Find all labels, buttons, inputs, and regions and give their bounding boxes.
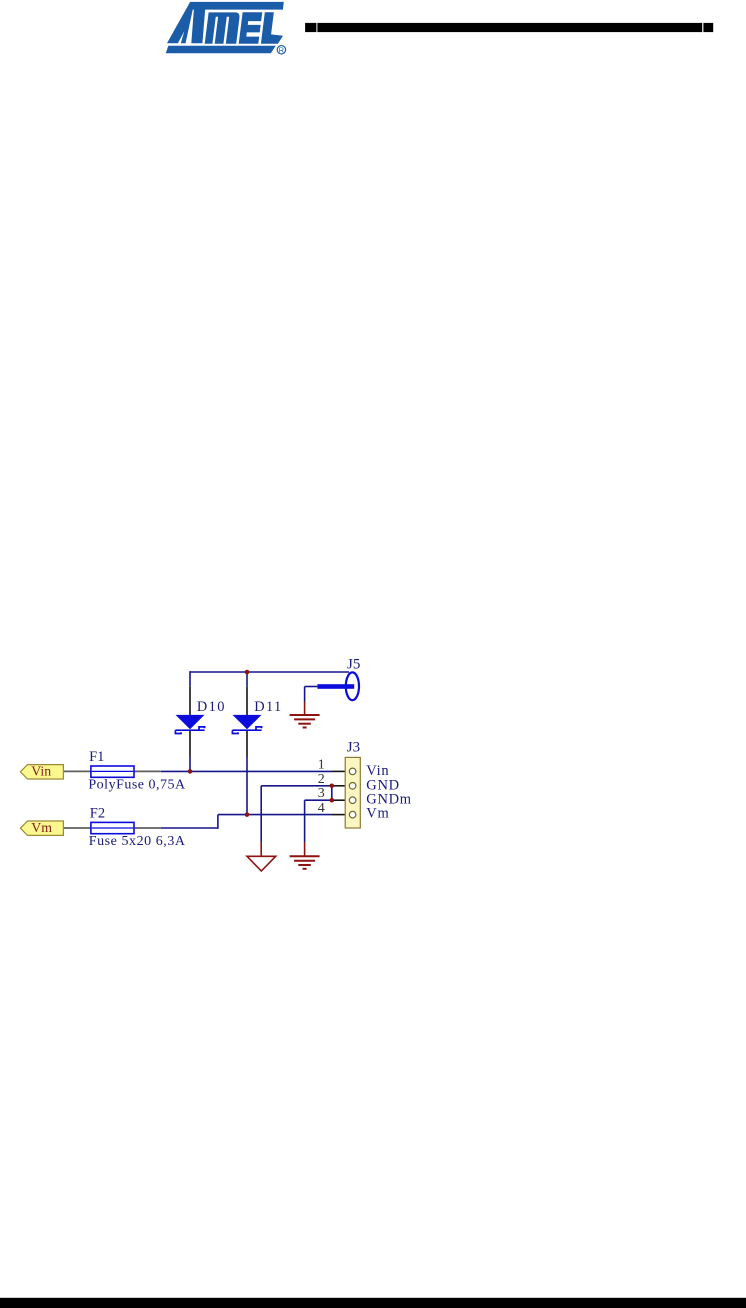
svg-text:Vm: Vm [366,805,389,821]
svg-text:Vm: Vm [31,820,52,835]
svg-text:D11: D11 [254,699,282,715]
svg-text:F2: F2 [90,806,105,822]
svg-text:2: 2 [318,772,325,787]
svg-text:F1: F1 [89,749,104,765]
svg-text:J5: J5 [347,657,360,673]
svg-text:Vin: Vin [31,764,51,779]
svg-text:Fuse 5x20 6,3A: Fuse 5x20 6,3A [89,834,186,849]
svg-text:4: 4 [318,801,325,816]
svg-text:3: 3 [318,786,325,801]
svg-text:PolyFuse 0,75A: PolyFuse 0,75A [88,778,186,793]
svg-text:D10: D10 [197,699,226,715]
svg-text:1: 1 [318,758,325,773]
svg-text:R: R [279,45,284,54]
svg-text:J3: J3 [347,740,360,756]
